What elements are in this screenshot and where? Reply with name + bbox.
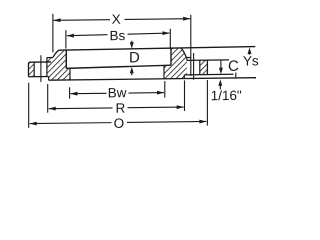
left bolt hole outer edge [33,62,35,76]
socket right wall [170,48,172,65]
dimension Bs label [111,31,118,40]
dimension R left arrowhead [49,107,56,111]
dimension Bs right arrowhead [163,31,170,35]
dimension Bw left arrowhead [70,92,77,96]
dimension Bs extension line left [65,30,67,49]
socket shoulder line [66,65,171,68]
dimension X left arrowhead [54,18,61,22]
flange ring bottom line right + C lower reference [184,73,233,76]
dimension R label [117,103,125,112]
dimension O extension line right [206,80,208,126]
raised face 1/16 inch up arrow [219,83,221,89]
right bolt hole centerline [193,53,195,80]
dimension Bs line left segment [67,35,108,36]
dimension Ys label [243,56,251,65]
right bolt hole outer edge [199,60,201,74]
hatch region: left hub/ring section [47,50,70,80]
dimension R line right segment [128,106,184,109]
dimension X label [112,14,120,23]
hub left corner fillet [53,50,59,57]
flange ring top line right + C upper reference [187,59,229,62]
left bolt hole inner edge [46,58,48,77]
dimension C label leader stub [235,73,237,78]
flange ring left edge [28,64,30,77]
dimension Bw extension line left [69,87,71,99]
dimension D label [130,52,139,62]
(cont) [128,33,170,34]
dimension O line left segment [30,122,112,125]
dimension C down arrow [220,60,222,70]
dimension Bw line left segment [70,92,106,94]
dimension R extension line right [184,80,186,111]
raised face 1/16 inch label [212,91,218,100]
dimension Bs left arrowhead [67,34,74,38]
hub right base ledge [186,56,191,58]
dimension X right arrowhead [183,17,190,21]
bore left wall [69,68,71,80]
bore right wall [163,65,165,78]
dimension D lower arrow (points up to shoulder) [131,72,133,75]
dimension Bw label [109,88,116,97]
dimension Bw right arrowhead [157,91,164,95]
right bolt hole inner hatch edge [186,58,188,61]
flange ring top line left [29,62,52,64]
dimension Bw line right segment [129,92,165,94]
dimension X line right segment [125,18,191,21]
hatch region: left outer ring section [29,62,35,77]
raised face right step [183,75,185,79]
dimension O label [114,118,123,128]
hatch region: right outer ring section [200,60,208,75]
dimension R extension line left [47,84,49,113]
dimension X extension line right (passes through drawing) [190,15,192,76]
hatch region: right hub/ring section [164,48,187,79]
socket left wall [65,50,67,68]
flange top face line (hub top, extends right as Ys reference) [59,47,256,51]
hub left base ledge [47,57,53,59]
dimension O right arrowhead [199,120,206,124]
flange ring right edge [206,60,208,74]
dimension C label [229,60,238,71]
dimension X line left segment [54,19,111,22]
left bolt hole centerline [40,55,42,82]
flange ring bottom line left [29,75,49,77]
dimension Bw extension line right [164,81,166,98]
raised face left step [48,76,50,80]
dimension Bs extension line right [169,29,171,48]
dimension O left arrowhead [30,122,37,126]
dimension O line right segment [127,120,206,123]
dimension R right arrowhead [177,105,184,109]
raised face bottom line + Ys lower reference [49,78,256,80]
dimension D upper arrow (points down to top face) [131,41,133,44]
dimension O extension line left [28,83,30,128]
hub right corner fillet [181,48,186,58]
dimension X extension line left [52,14,54,53]
dimension Ys up arrow [249,51,251,55]
dimension R line left segment [49,107,113,110]
